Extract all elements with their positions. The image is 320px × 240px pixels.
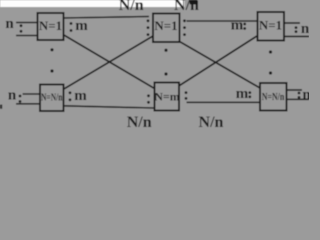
dots between input stubs of stage1 box bbox=[20, 24, 23, 27]
svg-text:N/n: N/n bbox=[127, 114, 152, 130]
vertical dots between stage2 boxes bbox=[164, 49, 167, 52]
svg-text:N/n: N/n bbox=[199, 114, 224, 130]
dots right of bottom stage3 box bbox=[298, 92, 301, 95]
stray mark at left edge bbox=[0, 105, 2, 109]
wire input stub bottom of bottom-left switch bbox=[16, 103, 40, 105]
svg-text:m: m bbox=[231, 18, 244, 34]
svg-text:N=m: N=m bbox=[154, 90, 180, 104]
dots right of stage2 box bbox=[183, 19, 186, 22]
svg-text:N=1: N=1 bbox=[39, 18, 62, 33]
wire middle switch m to top-right switch (diagonal) bbox=[180, 36, 258, 86]
svg-text:N=N/n: N=N/n bbox=[41, 93, 63, 104]
dots right of stage1 box bbox=[70, 22, 73, 25]
svg-text:n: n bbox=[302, 87, 309, 103]
wire middle switch1 to bottom-right switch (diagonal) bbox=[180, 42, 261, 89]
dots left of bottom stage3 box bbox=[248, 91, 251, 94]
svg-text:n: n bbox=[301, 21, 309, 37]
switch box stage2 no.1 bbox=[153, 14, 180, 43]
svg-text:N=1: N=1 bbox=[154, 18, 177, 33]
wire input stub bottom of switch 1 bbox=[16, 35, 38, 37]
dots between input stubs of bottom stage1 box bbox=[19, 95, 22, 98]
dots left of stage3 box bbox=[243, 23, 246, 26]
svg-text:m: m bbox=[236, 86, 249, 102]
wire input stub top of bottom-left switch bbox=[23, 93, 40, 95]
white top margin strip bbox=[0, 0, 185, 7]
wire output stub bottom of top-right switch bbox=[284, 35, 309, 37]
wire bottom-left switch to middle switch1 (diagonal) bbox=[63, 36, 153, 90]
wire middle switch1 to top-right switch bbox=[187, 20, 259, 22]
vertical dots between stage1 boxes bbox=[50, 48, 53, 51]
dots left of bottom stage2 box bbox=[147, 94, 150, 97]
wire bottom-left switch to middle switch m bbox=[63, 106, 154, 108]
switch box stage1 no.N/n bbox=[40, 85, 64, 112]
switch box stage3 no.N/n bbox=[260, 83, 287, 111]
dots right of bottom stage1 box bbox=[69, 91, 72, 94]
svg-text:m: m bbox=[74, 88, 87, 104]
dots right of stage3 box bbox=[295, 26, 298, 29]
switch box stage1 no.1 bbox=[38, 13, 64, 40]
wire switch1 to middle switch m (diagonal) bbox=[63, 35, 155, 89]
dots left of stage2 box bbox=[147, 19, 150, 22]
ink smudge above second top N/n label bbox=[190, 0, 199, 5]
dots right of bottom stage2 box bbox=[185, 91, 188, 94]
svg-text:N=1: N=1 bbox=[259, 18, 282, 33]
svg-text:n: n bbox=[5, 16, 14, 32]
vertical dots between stage3 boxes bbox=[269, 50, 272, 53]
switch box stage2 no.m bbox=[155, 83, 180, 111]
wire input stub top of switch 1 bbox=[16, 22, 38, 24]
wire output stub bottom of bottom-right switch bbox=[287, 98, 309, 100]
svg-text:n: n bbox=[8, 87, 17, 103]
wire output stub top of top-right switch bbox=[284, 22, 300, 24]
wire switch1 to middle switch1 bbox=[63, 17, 149, 19]
svg-text:m: m bbox=[75, 18, 88, 34]
svg-text:N=N/n: N=N/n bbox=[262, 92, 285, 103]
wire output stub top of bottom-right switch bbox=[287, 89, 302, 91]
svg-text:N/n: N/n bbox=[119, 0, 144, 14]
wire middle switch m to bottom-right switch bbox=[187, 101, 261, 103]
switch box stage3 no.1 bbox=[258, 12, 285, 41]
